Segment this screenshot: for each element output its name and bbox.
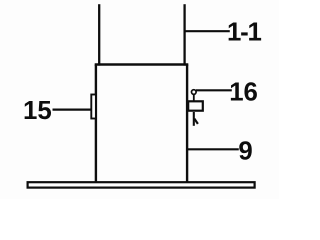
leader line to label 1-1: [185, 30, 230, 32]
component 16: body rectangle: [188, 101, 203, 110]
component 16: stem: [193, 94, 195, 101]
component 16: knob circle: [192, 90, 197, 95]
component 16: lower hook vertical stroke: [193, 112, 195, 126]
leader line to label 15: [53, 108, 92, 110]
svg-text:15: 15: [23, 97, 52, 125]
wire: column right line: [183, 4, 185, 65]
wire: column left line: [98, 4, 100, 65]
vessel 9: top edge: [95, 63, 189, 65]
svg-text:16: 16: [229, 78, 258, 106]
svg-text:9: 9: [238, 137, 252, 165]
leader line to label 16: [196, 89, 232, 91]
svg-text:1-1: 1-1: [227, 19, 262, 47]
component 16: lower hook diagonal stroke: [194, 119, 198, 124]
leader line to label 9: [187, 148, 239, 150]
vessel 9: left edge: [95, 65, 97, 183]
base plate: [28, 182, 255, 187]
component 15: side fitting rectangle: [91, 95, 96, 119]
vessel 9: right edge: [186, 65, 188, 183]
